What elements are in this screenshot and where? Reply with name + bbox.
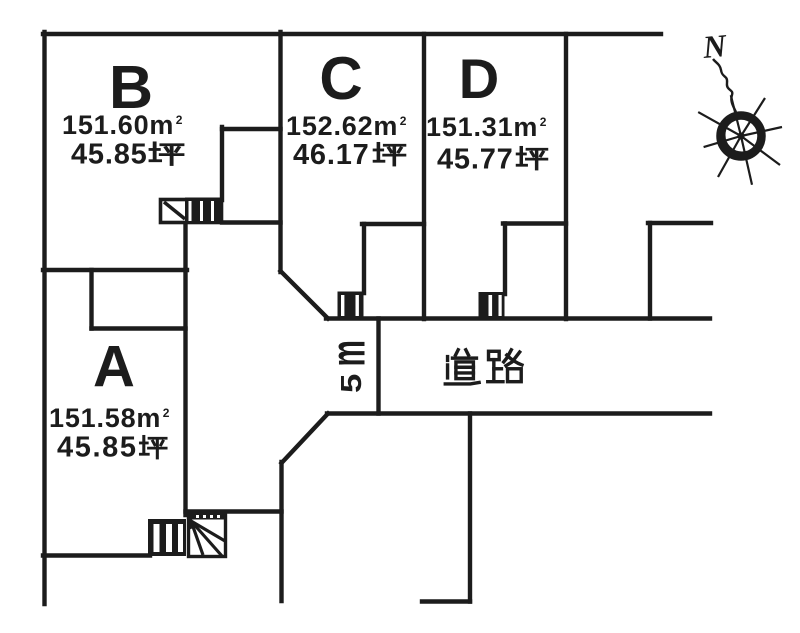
compass needle squiggle to the N: [713, 59, 736, 112]
south lot corner: horizontal: [422, 599, 470, 603]
plot B approach strip: horizontal step: [222, 127, 281, 131]
plot A top notch: vertical: [89, 270, 93, 329]
svg-text:C: C: [319, 45, 362, 112]
plot C entrance steps (dark block with tread slits): [338, 292, 364, 319]
svg-text:N: N: [700, 27, 729, 65]
neighbour lot notch east of D: vertical: [648, 223, 652, 319]
svg-text:151.58m2: 151.58m2: [49, 403, 170, 433]
road south edge: [327, 411, 710, 415]
private lane west edge: vertical lower: [279, 462, 283, 601]
bevel from lane into road south edge: [282, 414, 329, 464]
private lane west jog: horizontal: [186, 509, 282, 513]
plot C driveway notch: horizontal: [362, 222, 424, 226]
plot A entrance steps: ladder box: [148, 519, 186, 556]
road name kanji: dou (road): [445, 350, 479, 384]
south lot corner: vertical: [468, 414, 472, 602]
plot C driveway notch: vertical: [362, 224, 366, 293]
plot D entrance steps (dark block with tread slits): [479, 292, 505, 319]
svg-text:45.85: 45.85: [71, 139, 148, 171]
plot B approach strip: bottom edge to divider: [222, 220, 281, 224]
plot A top notch: horizontal: [92, 326, 186, 330]
svg-text:D: D: [459, 47, 499, 110]
plot B entrance steps: white tread slits: [189, 201, 192, 221]
tsubo kanji for plot B: [151, 143, 183, 165]
plot D driveway notch: horizontal: [503, 221, 566, 225]
tsubo kanji for plot D: [518, 147, 547, 169]
road north edge: [326, 316, 710, 320]
east wall of plot A: [183, 270, 187, 515]
north boundary line (top of plots B C D): [43, 32, 661, 36]
svg-text:151.31m2: 151.31m2: [426, 112, 547, 142]
svg-text:151.60m2: 151.60m2: [62, 110, 183, 140]
road width tick line (5 m marker): [376, 319, 380, 414]
plot A winder stair box (fan pattern): [189, 514, 226, 557]
bevel corner of plot C bottom-left: [281, 271, 329, 319]
plot B entrance steps: diagonal in left cell: [164, 202, 185, 219]
neighbour lot notch east of D: horizontal: [648, 221, 711, 225]
fan riser lines radiating from top-left corner: [191, 521, 225, 541]
plot B approach strip: vertical step: [220, 127, 224, 200]
tsubo kanji for plot C: [375, 143, 405, 165]
plot B south-east vertical wall down to A boundary: [183, 223, 187, 270]
road name kanji: ro (route): [488, 350, 522, 382]
svg-text:46.17: 46.17: [293, 139, 370, 171]
svg-text:152.62m2: 152.62m2: [286, 111, 407, 141]
plot B entrance steps: dark tread block: [185, 198, 223, 225]
svg-text:45.85: 45.85: [57, 432, 138, 464]
plot B entrance steps: outer box: [161, 200, 222, 223]
plot D driveway notch: vertical: [503, 224, 507, 295]
divider wall between plot C and plot D: [422, 34, 426, 319]
tsubo kanji for plot A: [141, 436, 167, 458]
boundary between plot B and plot A: [43, 268, 187, 272]
svg-text:45.77: 45.77: [437, 144, 514, 176]
svg-text:5: 5: [335, 374, 368, 393]
svg-text:A: A: [93, 335, 135, 400]
svg-text:m: m: [322, 340, 375, 366]
compass rose (hand drawn wheel): [698, 59, 782, 185]
plot A south boundary: [43, 553, 150, 557]
divider wall between plot B and plot C: [278, 32, 282, 272]
west boundary line (left edge of plots B and A): [42, 32, 46, 604]
east wall of plot D: [564, 34, 568, 319]
